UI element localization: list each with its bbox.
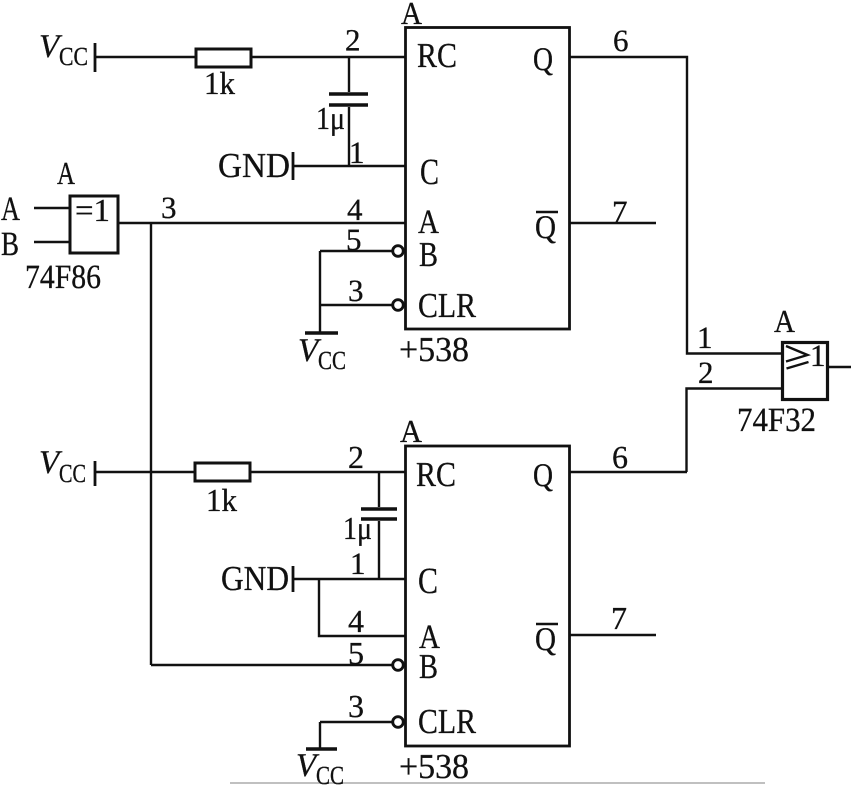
svg-text:1: 1 [349, 135, 365, 170]
svg-text:6: 6 [613, 23, 629, 58]
svg-text:RC: RC [417, 36, 457, 75]
svg-text:=1: =1 [75, 192, 110, 228]
svg-text:1k: 1k [204, 65, 235, 101]
svg-text:A: A [401, 0, 422, 31]
svg-text:CC: CC [318, 346, 346, 375]
svg-text:GND: GND [218, 146, 290, 185]
svg-text:B: B [1, 226, 19, 263]
svg-text:1μ: 1μ [343, 510, 372, 546]
svg-text:A: A [1, 191, 20, 228]
svg-text:A: A [57, 155, 75, 191]
svg-text:CC: CC [316, 761, 344, 786]
svg-text:Q: Q [535, 622, 556, 658]
svg-text:7: 7 [612, 194, 628, 229]
svg-text:1: 1 [697, 320, 713, 355]
svg-text:C: C [420, 152, 439, 193]
svg-text:RC: RC [416, 455, 456, 494]
svg-text:1: 1 [810, 338, 826, 373]
svg-text:6: 6 [612, 439, 628, 475]
svg-text:3: 3 [348, 273, 364, 308]
svg-text:5: 5 [346, 222, 362, 257]
svg-text:5: 5 [348, 635, 364, 671]
svg-text:1k: 1k [206, 482, 237, 518]
svg-text:7: 7 [611, 600, 627, 636]
svg-text:74F32: 74F32 [737, 402, 816, 439]
svg-text:Q: Q [535, 210, 556, 246]
svg-text:2: 2 [348, 439, 364, 475]
svg-text:CC: CC [59, 459, 86, 488]
svg-text:CLR: CLR [418, 286, 477, 325]
svg-text:3: 3 [161, 190, 177, 225]
svg-text:2: 2 [345, 23, 361, 58]
svg-text:CC: CC [59, 42, 88, 71]
svg-text:A: A [774, 303, 795, 339]
svg-text:+538: +538 [399, 747, 469, 786]
svg-text:A: A [400, 413, 422, 449]
svg-text:3: 3 [348, 688, 364, 724]
svg-text:2: 2 [698, 355, 714, 390]
svg-text:1: 1 [350, 546, 366, 581]
svg-text:GND: GND [221, 559, 289, 598]
svg-text:Q: Q [533, 42, 553, 78]
svg-text:B: B [419, 647, 438, 686]
svg-text:Q: Q [533, 458, 553, 494]
svg-text:B: B [419, 235, 438, 274]
svg-text:CLR: CLR [418, 702, 477, 741]
svg-text:1μ: 1μ [316, 100, 345, 136]
svg-text:74F86: 74F86 [25, 259, 101, 296]
svg-text:C: C [418, 561, 438, 602]
svg-text:+538: +538 [399, 330, 469, 369]
svg-text:4: 4 [348, 603, 364, 639]
